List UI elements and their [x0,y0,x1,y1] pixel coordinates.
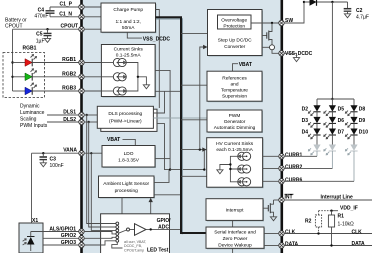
label mux inputs [124,240,147,252]
chip right edge [280,0,283,253]
wire ALS/GPIO1 to mux [84,232,116,234]
node ADC rail junction [169,168,171,170]
pin RGB2 [79,74,84,79]
LED D7 [324,129,344,139]
svg-text:CURR2: CURR2 [285,164,302,170]
wire DLS2 feed to mux [89,122,116,227]
node R2-CLK [317,232,319,234]
ground (VSS_DCDC) [293,58,299,62]
svg-text:VBAT: VBAT [239,62,252,68]
transistor boost switch [262,23,272,45]
svg-text:D10: D10 [359,130,368,136]
svg-text:R2: R2 [305,218,312,224]
label VBAT (LDO) [107,137,135,146]
svg-text:RGB1: RGB1 [62,57,76,63]
wire SW to boost node [284,2,304,23]
pin ALS/GPIO1 [79,229,84,234]
svg-text:D3: D3 [302,118,309,124]
LED D2 [302,105,321,115]
module RGB1 (dashed box) [3,46,45,98]
svg-text:HV Current Sinks: HV Current Sinks [216,141,254,147]
svg-text:CLK: CLK [352,230,363,236]
wire DLS lower out down to ADC row [157,124,170,170]
wire Current Sinks to bus (References) [155,90,181,92]
capacitor C3 100nF [40,153,64,169]
block Charge Pump [101,3,157,33]
svg-text:Scaling: Scaling [20,117,37,123]
wire Current Sinks to ADC rail [155,70,170,169]
block Serial Interface and Zero Power Device Wakeup [206,227,265,249]
pin C1_N [79,14,84,19]
pin CURR1 [279,152,303,159]
sensor module X1 (ambient light sensor) [19,218,43,253]
svg-text:DATA: DATA [285,241,299,247]
wire RGB1 pin to Current Sinks [84,62,101,64]
pin DLS2 [79,119,84,124]
ground (C3) [40,163,46,167]
svg-text:References: References [222,76,247,82]
node anode RGB2 [11,76,13,78]
svg-text:0.1-25.5mA: 0.1-25.5mA [116,53,142,59]
wire VANA feed to mux [91,153,116,230]
svg-text:Step Up DC/DC: Step Up DC/DC [218,38,252,44]
svg-text:Overvoltage: Overvoltage [221,17,247,23]
current sense circle [262,45,275,50]
svg-text:C1_N: C1_N [59,11,72,17]
wire LED anode rail [317,99,354,106]
wire CURR1 return [284,151,317,156]
wire HV to CURR1 pin [263,155,279,157]
wire ALS to ADC rail [154,170,169,183]
wire VDD_IF [319,210,339,212]
wire CURR6 return [284,151,354,181]
internal bus (thick) [156,17,207,234]
wire RGB2 pin to Current Sinks [84,76,101,78]
pin GPIO3 [79,242,84,247]
svg-text:C4: C4 [38,7,45,13]
wire VSS_DCDC stub from Charge Pump [127,32,170,42]
wire Interrupt Line [284,195,372,201]
transistor INT open-drain [268,200,273,217]
chip left edge [80,0,83,253]
svg-text:PWM Inputs: PWM Inputs [20,123,48,129]
wire C1_N [50,11,81,17]
ground (C2) [344,14,350,18]
svg-text:100nF: 100nF [50,163,64,169]
wire sinks common bus [127,63,147,92]
ground (HV sinks) [217,170,223,174]
node VDD_IF junction [330,210,332,212]
wire GPIO3 [43,240,81,246]
wire bus to HV lower [181,175,207,177]
node VANA tap [90,152,92,154]
wire D5-D6 [331,112,333,117]
wire mux note elbow [112,242,123,248]
LED D4 [302,129,321,139]
block References and Temperature Supervision [207,71,263,102]
resistor R1 1-10k [328,211,354,246]
wire DLS1 [47,110,81,116]
diode D1 [310,0,317,6]
pin SW [279,18,294,26]
svg-text:Converter: Converter [224,44,245,50]
svg-text:VSS_DCDC: VSS_DCDC [143,37,171,43]
LED ghost column1 [308,145,320,155]
wire LDO out to ADC rail [155,158,170,160]
wire C1_N pin to Charge Pump [84,16,101,18]
node DLS1 junction [86,114,88,116]
LED D9 [345,117,365,127]
svg-text:GPIO2: GPIO2 [61,233,77,239]
node anode RGB1 [11,61,13,63]
LED ghost column2 [324,145,336,155]
LED red D-RGB1 [13,55,37,67]
svg-text:Interrupt Line: Interrupt Line [321,195,353,201]
node R1-DATA [330,244,332,246]
svg-text:RGB3: RGB3 [62,86,76,92]
wire DLS2 [47,117,81,123]
LED D3 [302,117,321,127]
svg-text:Dynamic: Dynamic [20,104,40,110]
svg-text:D7: D7 [338,130,345,136]
svg-text:CLK: CLK [285,229,296,235]
wire DATA line [284,241,372,247]
svg-text:RGB1: RGB1 [23,46,37,52]
node HV bus [229,163,231,165]
block GPIO/ADC [101,214,171,253]
svg-text:ALS/GPIO1: ALS/GPIO1 [49,226,76,232]
pin CPOUT [79,27,84,32]
wire ALS/GPIO1 [31,226,81,232]
current source symbol sink2 [101,73,126,81]
svg-text:DLS processing: DLS processing [108,111,142,117]
svg-text:PWM: PWM [229,113,241,119]
node HV bus 2 [229,168,231,170]
svg-text:470nF: 470nF [34,14,48,20]
wire LED anode rail [12,29,14,91]
pin C1_P [79,4,84,9]
wire boost top rail [304,1,348,3]
svg-text:Ambient Light Sensor: Ambient Light Sensor [103,181,149,187]
svg-text:Generator: Generator [224,119,246,125]
svg-text:1:1 and 1:2,: 1:1 and 1:2, [116,19,141,25]
svg-text:D5: D5 [338,107,345,113]
wire D6-D7 [331,123,333,128]
svg-text:C5: C5 [36,31,43,37]
mux contacts [116,222,119,242]
wire DLS2 pin to DLS block [84,121,97,123]
svg-text:Device Wakeup: Device Wakeup [218,242,252,248]
pin DLS1 [79,112,84,117]
svg-text:VANA: VANA [63,148,77,154]
wire Serial to DATA pin [264,245,279,247]
svg-text:Supervision: Supervision [222,94,247,100]
capacitor C5 1uF [36,29,52,44]
chip body U1 [81,0,282,253]
node DLS2 junction [88,121,90,123]
svg-text:R1: R1 [338,213,345,219]
wire bus to Step Up [181,33,208,35]
svg-text:Interrupt: Interrupt [226,208,245,214]
svg-text:and: and [230,82,238,88]
wire INT drain to pin [274,199,280,201]
svg-text:CURR6: CURR6 [285,177,302,183]
LED green D-RGB2 [13,69,37,81]
wire D3-D4 [316,123,318,128]
svg-text:D6: D6 [338,118,345,124]
wire Interrupt gate [263,207,268,209]
block DLS processing [97,106,153,128]
current source symbol HV3 [238,178,251,186]
current source symbol sink3 [101,87,126,95]
svg-text:D2: D2 [302,107,309,113]
node C3 junction [42,152,44,154]
svg-text:Serial Interface and: Serial Interface and [214,230,256,236]
wire CPOUT [13,24,82,30]
label Dynamic Luminance Scaling PWM Inputs [20,104,48,130]
block Ambient Light Sensor processing [99,176,156,199]
block LDO [102,146,156,169]
wire RGB2 [32,71,81,77]
wire to VSS_DCDC pin [272,50,279,54]
svg-text:Protection: Protection [223,23,245,29]
wire D4 down [316,135,318,145]
wire DLS upper out to References row [153,91,164,113]
svg-text:processing: processing [115,188,139,194]
pin DATA [279,241,299,248]
node ADC tap [203,168,205,170]
block DLS processing (stacked shadow box) [101,109,157,131]
pin CURR6 [279,177,303,184]
mux switch arm [119,228,135,233]
node sinks bus [137,76,139,78]
LED D10 [345,129,368,139]
svg-text:1.8-3.35V: 1.8-3.35V [118,158,140,164]
ground (INT) [270,217,276,221]
node HV feed junction [199,148,201,150]
svg-text:CURR1: CURR1 [285,152,302,158]
wire D8-D9 [353,112,355,117]
block Current Sinks [101,45,156,98]
svg-text:VSS_DCDC: VSS_DCDC [285,51,313,57]
wire D10 down [353,135,355,145]
svg-text:4.7µF: 4.7µF [356,15,369,21]
LED D5 [324,105,344,115]
wire OVP to SW [251,22,279,24]
wire C1_P pin to Charge Pump [84,6,101,8]
pin VANA [79,151,84,156]
wire Charge Pump to internal CPOUT rail [156,10,160,109]
wire VANA pin to LDO [84,152,102,154]
pin INT [279,194,294,203]
wire Interrupt to Serial [232,220,234,227]
svg-text:DLS2: DLS2 [63,117,76,123]
current source symbol HV1 [238,152,251,160]
wire CPOUT pin to Charge Pump [84,28,101,30]
svg-text:1µF: 1µF [36,39,45,45]
svg-text:Temperature: Temperature [221,88,248,94]
node amp output [150,228,152,230]
wire boost out to LED rail [331,2,333,99]
node boost input [303,1,305,3]
wire VSS_DCDC to ground [284,53,297,57]
label VBAT (References) [233,62,252,71]
node SW internal [271,22,273,24]
wire Serial to CLK pin [264,233,279,235]
LED D8 [345,105,365,115]
svg-text:Charge Pump: Charge Pump [113,7,143,13]
wire amp up to ALS (arrow) [149,198,153,230]
pin VSS_DCDC [279,51,313,57]
svg-text:LDO: LDO [124,151,134,157]
svg-text:Automatic Dimming: Automatic Dimming [214,125,256,131]
wire C1_P [50,1,81,7]
svg-text:DLS1: DLS1 [63,110,76,116]
wire bus to References [181,84,207,86]
current source symbol HV2 [238,165,251,173]
svg-text:LED Test: LED Test [147,248,169,253]
LED ghost column3 [345,145,357,155]
capacitor C2 4.7uF [344,2,369,21]
wire HV to CURR6 pin [263,180,279,182]
wire D2-D3 [316,112,318,117]
wire RGB1 [32,57,81,63]
amp buffer (LED test) [135,224,147,236]
block Overvoltage Protection [218,15,252,29]
wire DLS1 feed to mux [87,115,116,224]
capacitor C4 470nF [34,7,54,20]
wire DLS1 pin to DLS block [84,114,97,116]
svg-text:RGB2: RGB2 [62,71,76,77]
svg-text:1-10kΩ: 1-10kΩ [338,222,355,228]
wire D9-D10 [353,123,355,128]
pin RGB3 [79,88,84,93]
svg-text:(PWM->Linear): (PWM->Linear) [109,119,142,125]
svg-text:D8: D8 [359,107,366,113]
ground (current sinks) [143,85,149,89]
wire bus to HV Current Sinks (arrow) [181,147,207,151]
node CPOUT junction [46,28,48,30]
wire ALS down to mux (arrow) [120,198,124,227]
pin CURR2 [279,164,303,171]
wire CURR2 return [284,151,332,168]
svg-text:DATA: DATA [352,241,366,247]
photodiode in X1 [23,232,35,252]
wire VANA [32,148,82,154]
svg-text:C2: C2 [356,8,363,14]
ground (C5) [44,38,50,42]
wire RGB3 pin to Current Sinks [84,90,101,92]
svg-text:VDD_IF: VDD_IF [340,206,358,212]
svg-text:C1_P: C1_P [59,1,72,7]
current source symbol sink1 [101,58,126,66]
wire HV sinks bus [220,156,238,182]
svg-text:CPOUT,amp: CPOUT,amp [124,248,144,252]
wire D7 down [331,135,333,145]
wire ADC tap to HV feed [170,150,204,170]
node LED anode rail [331,98,333,100]
svg-text:50mA: 50mA [122,25,135,31]
wire Serial down [232,248,234,253]
block PWM Generator Automatic Dimming [207,110,263,133]
svg-text:D4: D4 [302,130,309,136]
svg-text:X1: X1 [32,218,38,224]
pin CLK [279,229,296,236]
svg-text:CPOUT: CPOUT [5,24,23,30]
svg-text:Luminance: Luminance [20,110,45,116]
block Interrupt [206,199,264,222]
wire RGB3 [32,86,81,92]
pin GPIO2 [79,236,84,241]
wire GPIO2 to mux [84,237,116,238]
svg-text:D9: D9 [359,118,366,124]
wire ALS to bus [154,194,181,196]
LED D6 [324,117,344,127]
wire bus to PWM [181,119,207,121]
resistor R2 (optional, dashed) [305,211,322,234]
wire DLS to PWM (gray) [153,117,207,119]
wire GPIO3 to mux [84,241,116,245]
wire StepUp feedback (arrow into Step Up) [200,45,208,150]
pin RGB1 [79,60,84,65]
wire amp output [146,228,181,230]
wire CLK line [284,230,372,236]
LED blue D-RGB3 [13,83,37,95]
svg-text:C3: C3 [50,156,57,162]
svg-text:Zero Power: Zero Power [223,236,248,242]
block HV Current Sinks [207,138,264,189]
wire VANA to X1 [31,153,33,223]
block Step Up DC/DC Converter [208,10,264,57]
svg-text:GPIO/: GPIO/ [157,218,172,224]
wire GPIO2 [43,233,81,239]
svg-text:Current Sinks: Current Sinks [114,47,144,53]
wire HV to CURR2 pin [263,167,279,169]
svg-text:CPOUT: CPOUT [61,24,79,30]
node LED rail tap [331,1,333,3]
svg-text:GPIO3: GPIO3 [61,240,77,246]
svg-text:VBAT: VBAT [107,137,120,143]
